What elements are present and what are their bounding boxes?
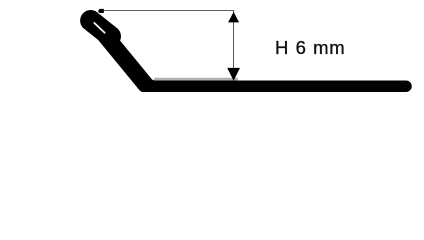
svg-text:H 6 mm: H 6 mm [275, 37, 345, 58]
